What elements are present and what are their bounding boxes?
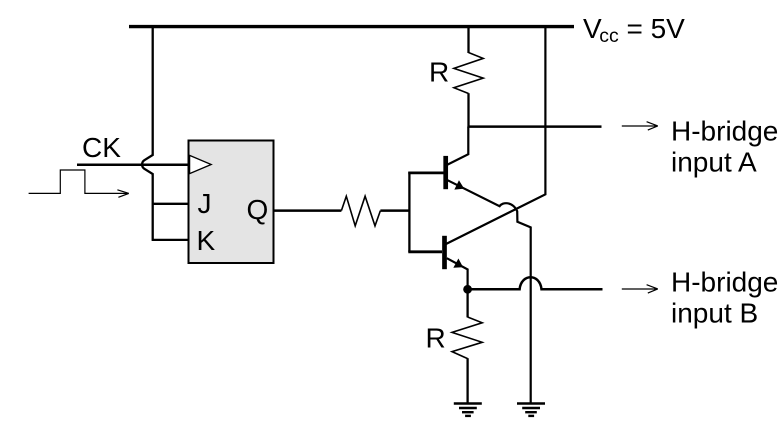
clock pulse arrow head bbox=[117, 190, 128, 198]
transistor Q1 emitter arrow bbox=[455, 181, 463, 189]
clock input triangle bbox=[190, 155, 212, 173]
junction dot (input B node) bbox=[463, 285, 472, 294]
Q output wire bbox=[274, 209, 342, 212]
ground symbol (right) bbox=[517, 404, 545, 416]
svg-text:J: J bbox=[198, 188, 212, 219]
svg-text:K: K bbox=[197, 225, 216, 256]
ground symbol (left) bbox=[454, 404, 482, 416]
input B annotation arrow bbox=[622, 285, 658, 293]
K input wire bbox=[152, 239, 189, 241]
J input wire bbox=[152, 203, 189, 205]
resistor R (pull-up) zigzag bbox=[454, 53, 483, 94]
flip-flop U1 box bbox=[189, 141, 274, 264]
svg-text:CK: CK bbox=[82, 132, 121, 163]
resistor (base series) bbox=[341, 196, 380, 226]
svg-text:Vcc = 5V: Vcc = 5V bbox=[583, 13, 685, 47]
CK input wire bbox=[77, 163, 189, 166]
svg-text:Q: Q bbox=[247, 194, 269, 225]
resistor R (pull-up) lead to input A node bbox=[467, 93, 469, 127]
svg-text:H-bridge: H-bridge bbox=[671, 116, 778, 147]
resistor R (pull-up) lead from rail bbox=[467, 26, 469, 54]
input A annotation arrow bbox=[622, 122, 658, 130]
transistor Q1 base wire bbox=[408, 171, 443, 174]
wire input B node to pull-down resistor bbox=[466, 289, 468, 317]
transistor Q2 collector wire up to Vcc rail crossing input A line bbox=[446, 26, 545, 245]
transistor Q2 base bar bbox=[442, 236, 447, 269]
transistor Q2 base wire bbox=[408, 250, 442, 253]
wire resistor to base bus bbox=[380, 209, 410, 212]
clock pulse symbol bbox=[29, 170, 129, 193]
transistor Q1 collector wire bbox=[448, 127, 469, 165]
resistor R (pull-down) zigzag bbox=[452, 317, 482, 359]
svg-text:H-bridge: H-bridge bbox=[671, 267, 778, 298]
wire from rail down to J/K inputs with hop over CK wire bbox=[142, 26, 153, 241]
svg-text:R: R bbox=[426, 323, 446, 354]
transistor Q1 emitter wire with hop over Q2 collector, down to ground bbox=[448, 180, 531, 404]
svg-text:input B: input B bbox=[671, 298, 758, 329]
H-bridge input B wire with hop over Q1 emitter ground wire bbox=[468, 277, 603, 289]
resistor R (pull-down) lead to ground bbox=[466, 358, 468, 404]
H-bridge input A wire bbox=[468, 125, 602, 128]
transistor Q2 emitter arrow bbox=[454, 260, 462, 268]
transistor Q1 base bar bbox=[443, 156, 448, 189]
svg-text:input A: input A bbox=[671, 147, 757, 178]
transistor Q2 emitter wire bbox=[447, 258, 468, 289]
base bus vertical wire bbox=[408, 172, 410, 252]
Vcc power rail bbox=[129, 25, 574, 28]
svg-text:R: R bbox=[429, 56, 449, 87]
